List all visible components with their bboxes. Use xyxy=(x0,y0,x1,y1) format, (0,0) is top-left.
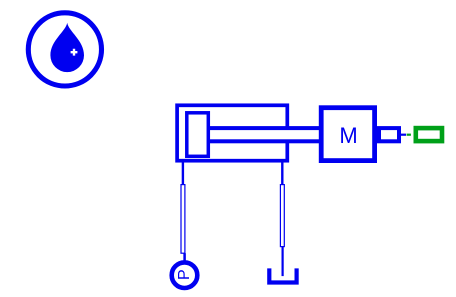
hose segment left xyxy=(181,185,185,254)
wire: to pressure gauge xyxy=(183,253,186,261)
svg-text:M: M xyxy=(339,123,357,148)
fluid logo water drop xyxy=(50,23,84,72)
pressure gauge P circle xyxy=(172,262,198,288)
wire: cylinder left port down xyxy=(182,162,184,185)
fluid logo plus mark xyxy=(71,49,78,56)
wire: to tank xyxy=(282,247,284,277)
svg-text:P: P xyxy=(176,269,193,280)
piston rod xyxy=(208,128,321,141)
hose segment right xyxy=(280,185,284,247)
blue dash link xyxy=(401,134,406,136)
piston xyxy=(187,113,209,157)
measuring box M xyxy=(321,108,374,161)
tank T1 xyxy=(269,268,296,282)
green dash link xyxy=(407,134,411,136)
cylinder body C1 xyxy=(177,105,287,160)
green connector block xyxy=(416,128,442,141)
wire: cylinder right port down xyxy=(281,162,283,185)
shaft stub on M box xyxy=(379,128,399,141)
fluid logo outer circle xyxy=(28,13,101,86)
